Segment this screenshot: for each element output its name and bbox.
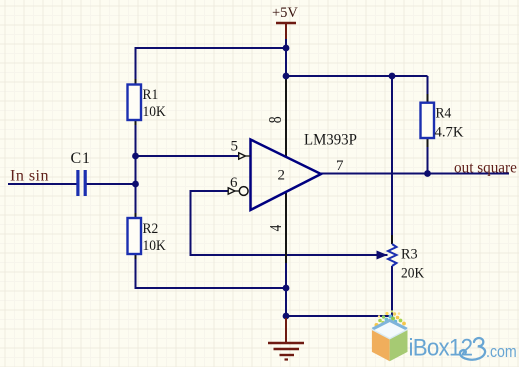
svg-text:7: 7 xyxy=(336,158,344,174)
svg-text:out square: out square xyxy=(454,159,517,176)
svg-text:R1: R1 xyxy=(143,86,159,103)
svg-text:5: 5 xyxy=(231,139,239,155)
svg-text:4: 4 xyxy=(266,224,285,231)
svg-text:2: 2 xyxy=(278,168,286,184)
svg-text:R4: R4 xyxy=(436,105,452,122)
svg-text:10K: 10K xyxy=(143,103,167,120)
svg-text:R2: R2 xyxy=(143,220,159,237)
svg-text:4.7K: 4.7K xyxy=(435,124,464,140)
svg-text:C1: C1 xyxy=(71,150,91,167)
svg-text:10K: 10K xyxy=(143,237,167,254)
svg-text:.com: .com xyxy=(486,343,517,361)
svg-text:20K: 20K xyxy=(401,265,425,282)
svg-text:R3: R3 xyxy=(401,246,418,262)
svg-text:In sin: In sin xyxy=(10,167,49,184)
svg-text:6: 6 xyxy=(230,175,238,191)
svg-text:LM393P: LM393P xyxy=(304,131,357,149)
svg-text:8: 8 xyxy=(266,116,285,123)
svg-text:+5V: +5V xyxy=(272,5,298,21)
